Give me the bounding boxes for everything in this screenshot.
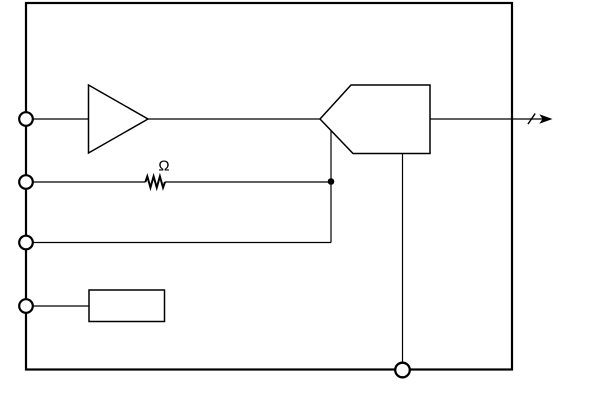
wire: input 3 horizontal [33, 242, 331, 244]
wire: input 1 to buffer [33, 118, 89, 120]
buffer amplifier triangle [89, 85, 149, 153]
wire: input 4 to block [33, 305, 89, 307]
terminal circle pin 4 [19, 299, 33, 313]
terminal circle pin 3 [19, 236, 33, 250]
terminal circle pin 1 [19, 112, 33, 126]
bus width slash on output [528, 114, 535, 125]
output arrowhead [539, 114, 552, 124]
wire: vertical from driver lower edge through junction to input 3 row [330, 131, 332, 243]
wire: resistor to junction [165, 181, 331, 183]
IC body outline box [26, 3, 512, 370]
wire: input 2 to resistor [33, 181, 145, 183]
junction dot [328, 178, 335, 185]
terminal circle bottom pin [395, 363, 410, 378]
function block rectangle [89, 290, 165, 322]
wire: driver output to external arrow [430, 118, 546, 120]
svg-text:Ω: Ω [158, 157, 169, 174]
terminal circle pin 2 [19, 175, 33, 189]
wire: buffer output to driver input [148, 118, 320, 120]
resistor zigzag [145, 176, 165, 187]
wire: driver bottom to bottom terminal [402, 154, 404, 364]
output driver pentagon [320, 85, 430, 154]
